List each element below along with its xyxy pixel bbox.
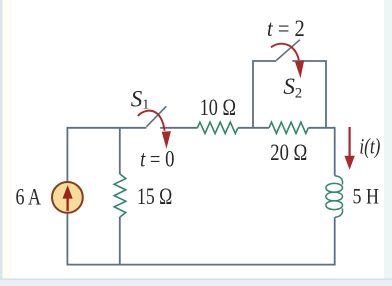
wire bottom — [67, 264, 336, 266]
wire between 10ohm and 20ohm — [238, 127, 269, 129]
wire 15ohm branch upper — [119, 128, 121, 174]
svg-text:20 Ω: 20 Ω — [270, 140, 307, 166]
wire top-left segment — [67, 127, 146, 129]
svg-text:t = 0: t = 0 — [140, 147, 174, 172]
wire left vertical lower — [66, 214, 68, 266]
svg-text:15 Ω: 15 Ω — [137, 184, 172, 210]
svg-text:i(t): i(t) — [359, 134, 380, 159]
svg-text:6 A: 6 A — [16, 184, 42, 210]
resistor 15 ohm — [114, 174, 126, 217]
switch S1 blade — [146, 106, 166, 127]
switch S2 arrow — [271, 44, 304, 79]
resistor 20 ohm — [269, 122, 308, 133]
svg-text:5 H: 5 H — [353, 184, 379, 209]
switch S2 blade — [276, 40, 300, 61]
svg-text:10 Ω: 10 Ω — [200, 95, 236, 121]
wire S2 loop top-left segment — [252, 60, 276, 62]
wire right vertical upper — [334, 127, 336, 176]
wire left vertical upper — [66, 127, 68, 181]
inductor 5H — [326, 176, 343, 218]
resistor 10 ohm — [197, 122, 238, 133]
wire S2 loop left vertical — [252, 61, 254, 128]
wire S2 loop top-right segment — [292, 60, 327, 62]
current source 6A — [52, 182, 83, 213]
switch S1 arrow — [138, 111, 171, 149]
wire right vertical lower — [334, 217, 336, 265]
wire 20ohm to top-right corner — [308, 127, 334, 129]
wire S2 loop right vertical — [325, 61, 327, 128]
svg-text:t = 2: t = 2 — [267, 16, 305, 41]
current arrow i(t) — [344, 127, 354, 170]
wire 15ohm branch lower — [119, 217, 121, 265]
wire top segment right of switch S1 — [160, 127, 197, 129]
